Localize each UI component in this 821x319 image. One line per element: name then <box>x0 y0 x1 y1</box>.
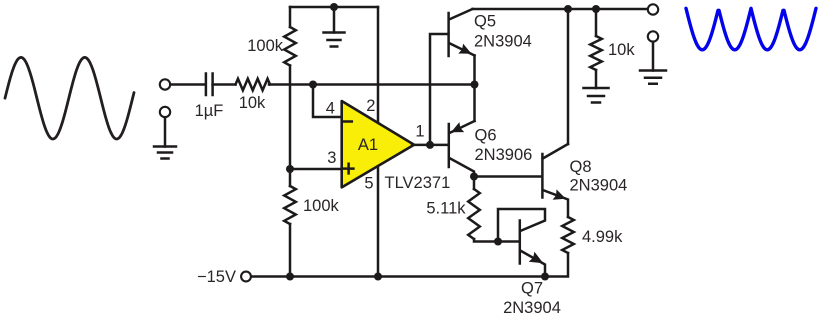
resistor R 5.11k <box>468 177 480 240</box>
junction: output rail / 10k load <box>592 5 600 13</box>
wire: C1 to R 10k <box>213 83 236 86</box>
capacitor C1 <box>206 74 213 96</box>
wire: top ground rail <box>290 6 378 9</box>
input sine waveform <box>5 57 134 139</box>
wire: summing node rail (10k to Q5/Q6 emitters) <box>269 83 475 86</box>
svg-text:Q5: Q5 <box>474 13 496 31</box>
ground (10k load) <box>584 88 609 103</box>
transistor Q5 2N3904 <box>449 9 475 56</box>
svg-text:2N3904: 2N3904 <box>570 177 628 195</box>
transistor Q7 2N3904 (diode-connected) <box>498 209 561 317</box>
wire: -15V rail <box>251 253 568 277</box>
resistor R 10k (output load) <box>590 9 602 88</box>
junction: bias chain at -15V rail <box>286 273 294 281</box>
wire: input terminal to C1 <box>170 83 205 86</box>
junction: output node <box>426 141 434 149</box>
output ground terminal <box>648 31 658 70</box>
svg-text:Q6: Q6 <box>475 127 497 145</box>
wire: tap to op-amp pin 4 <box>313 85 342 118</box>
wire: supply rail pin2-pin5 (V+ to V-) <box>377 7 380 277</box>
junction: non-inverting input node <box>286 165 294 173</box>
designator label: Q5 2N3904 <box>474 13 532 51</box>
designator label: Q6 2N3906 <box>475 127 533 165</box>
svg-text:3: 3 <box>327 149 336 167</box>
output waveform (full-wave rectified, inverted) <box>686 8 816 50</box>
svg-text:2N3906: 2N3906 <box>475 146 533 164</box>
wire: bias node to op-amp pin 3 <box>290 168 342 171</box>
svg-text:2N3904: 2N3904 <box>503 299 561 317</box>
junction: Q7 base/collector tie <box>494 238 502 246</box>
ground terminal below input <box>160 107 170 147</box>
ground (input) <box>154 147 176 159</box>
wire: rail down to 100k upper <box>289 7 292 27</box>
input terminal <box>160 79 170 89</box>
designator label: Q8 2N3904 <box>570 158 628 195</box>
resistor 10k (input) <box>236 79 271 91</box>
resistor R 100k (lower bias) <box>284 186 296 224</box>
svg-text:100k: 100k <box>247 37 284 55</box>
svg-text:4: 4 <box>326 100 335 118</box>
svg-text:Q8: Q8 <box>570 158 592 176</box>
svg-text:2N3904: 2N3904 <box>474 33 532 51</box>
op-amp U1 A1 TLV2371 <box>342 101 414 187</box>
junction: ground rail tap <box>330 3 338 11</box>
junction: Q7 emitter at rail <box>541 273 549 281</box>
svg-text:5: 5 <box>364 175 373 193</box>
svg-text:10k: 10k <box>608 41 635 59</box>
wire: Q6 collector to Q8 base <box>474 175 541 178</box>
wire: Q8 collector to output rail <box>567 9 570 144</box>
transistor Q8 2N3904 <box>542 144 568 217</box>
wire: base tie vertical Q5/Q6 <box>430 34 448 145</box>
svg-text:1: 1 <box>415 123 424 141</box>
wire: Q5 collector to output rail <box>473 8 648 11</box>
junction: inverting input tap <box>309 81 317 89</box>
svg-text:−15V: −15V <box>197 268 236 286</box>
svg-text:TLV2371: TLV2371 <box>385 174 451 192</box>
svg-text:2: 2 <box>366 97 375 115</box>
resistor R 100k (upper bias) <box>284 27 296 66</box>
-15V supply terminal <box>241 272 251 282</box>
wire: 100k upper to bias node <box>289 66 292 187</box>
wire: Q5 emitter down to Q6 emitter <box>473 56 476 122</box>
svg-text:5.11k: 5.11k <box>426 200 466 218</box>
svg-text:Q7: Q7 <box>521 280 543 298</box>
junction: Q6 collector node <box>470 173 478 181</box>
wire: 100k lower to -15V rail <box>289 224 292 277</box>
resistor R 4.99k <box>562 217 574 253</box>
junction: pin 5 at -15V rail <box>374 273 382 281</box>
svg-text:100k: 100k <box>303 197 340 215</box>
wire: op-amp output to base tie <box>412 144 448 147</box>
junction: emitter node at summing rail <box>471 81 479 89</box>
svg-text:A1: A1 <box>358 136 378 154</box>
ground (output terminal) <box>640 71 666 84</box>
output terminal <box>648 4 658 14</box>
junction: output rail / Q8 collector <box>564 5 572 13</box>
ground (top rail) <box>324 7 345 47</box>
svg-text:10k: 10k <box>239 94 266 112</box>
svg-text:1µF: 1µF <box>195 102 224 120</box>
transistor Q6 2N3906 <box>449 121 475 177</box>
svg-text:4.99k: 4.99k <box>582 228 623 246</box>
wire: 5.11k to Q7 base <box>474 239 519 242</box>
